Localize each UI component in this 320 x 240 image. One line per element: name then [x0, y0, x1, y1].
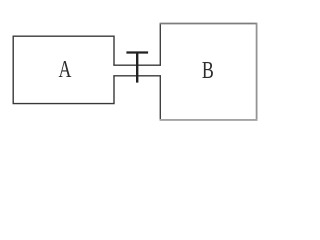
- chamber A (rectangle, open on right side at channel): [13, 36, 114, 103]
- chamber B top wall: [160, 23, 257, 25]
- channel bottom wall (wire): [113, 75, 161, 77]
- chamber B right wall: [256, 23, 258, 121]
- svg-text:A: A: [59, 56, 73, 83]
- svg-text:B: B: [202, 56, 214, 83]
- chamber B left wall (open at channel): [159, 24, 161, 120]
- valve stem: [136, 52, 138, 83]
- chamber B bottom wall: [160, 119, 258, 121]
- valve T-bar (piston cap): [126, 51, 148, 53]
- channel top wall (wire): [113, 64, 161, 66]
